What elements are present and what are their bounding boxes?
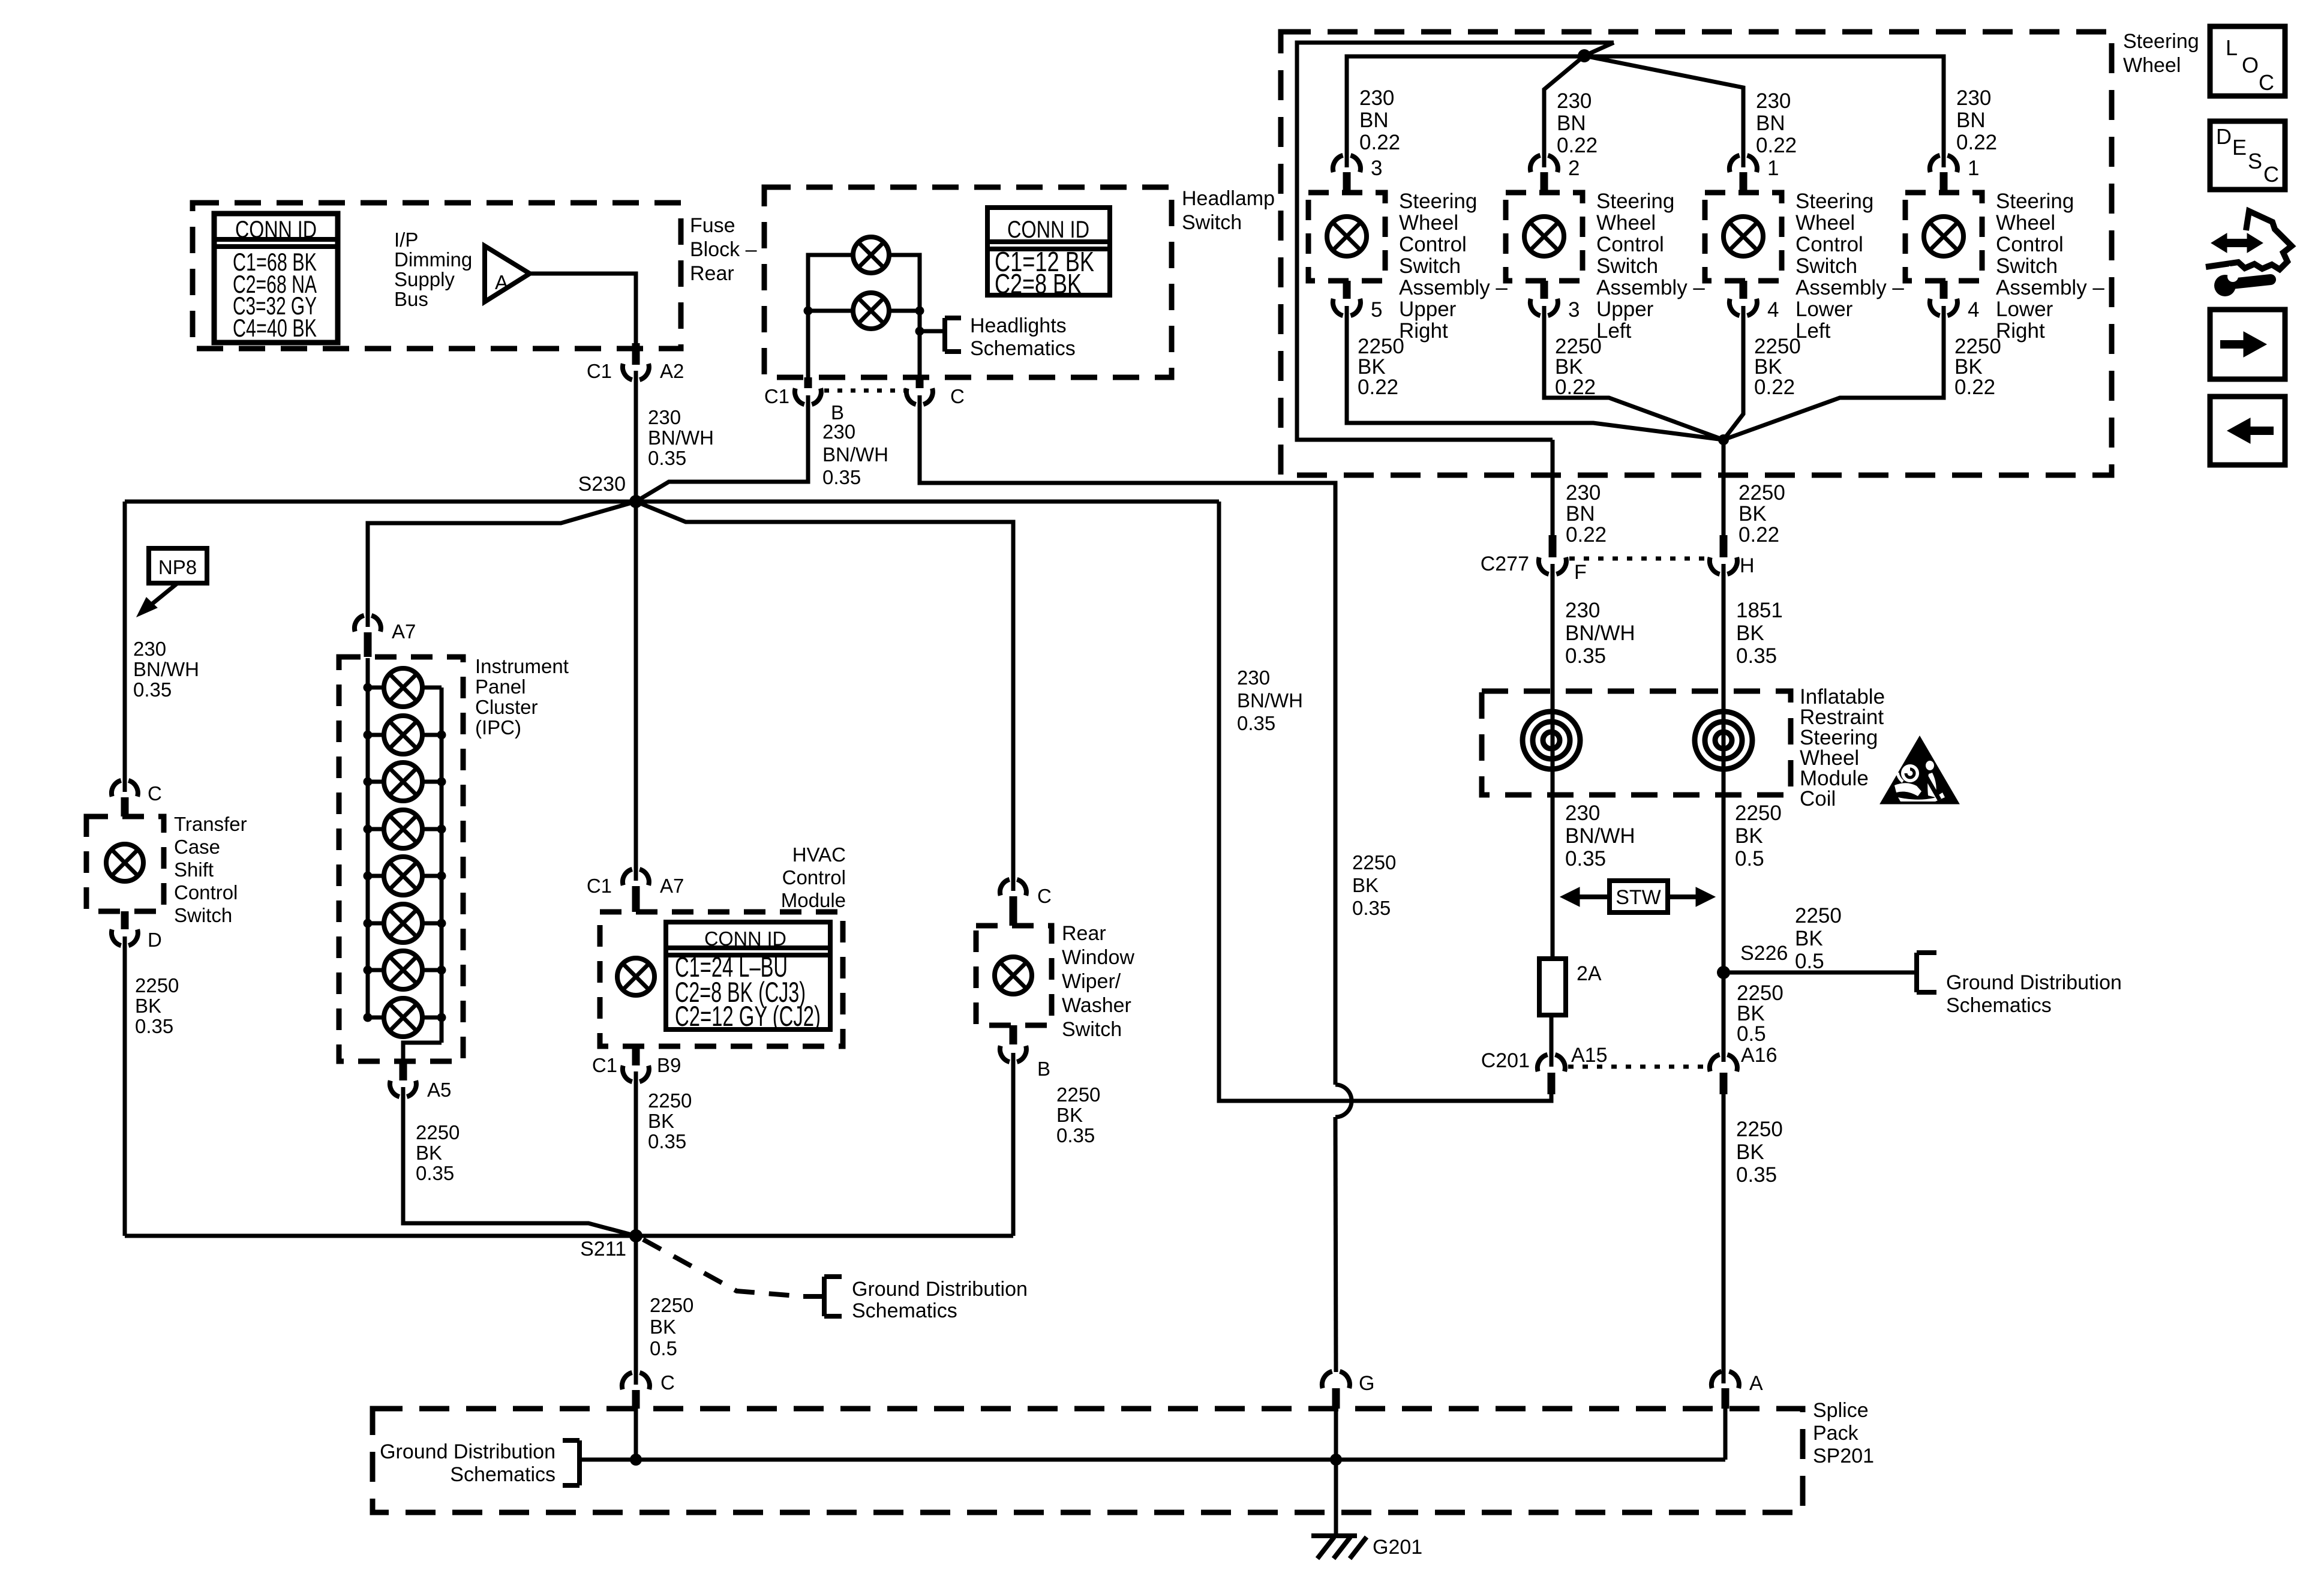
svg-text:Right: Right xyxy=(1399,319,1448,343)
svg-text:Lower: Lower xyxy=(1795,298,1853,321)
svg-text:C1: C1 xyxy=(587,360,612,382)
svg-text:0.5: 0.5 xyxy=(1795,950,1824,973)
svg-text:Switch: Switch xyxy=(174,904,232,926)
svg-text:0.22: 0.22 xyxy=(1739,523,1779,547)
svg-text:Transfer: Transfer xyxy=(174,813,247,835)
svg-text:230: 230 xyxy=(1956,86,1991,110)
svg-text:B: B xyxy=(1037,1058,1050,1080)
svg-text:Block –: Block – xyxy=(690,238,757,261)
svg-text:BN/WH: BN/WH xyxy=(1565,622,1635,645)
svg-text:BK: BK xyxy=(1736,622,1764,645)
svg-text:Cluster: Cluster xyxy=(475,696,538,718)
svg-text:A7: A7 xyxy=(660,875,684,897)
svg-text:5: 5 xyxy=(1371,298,1382,322)
svg-text:Assembly –: Assembly – xyxy=(1399,276,1508,299)
svg-text:230: 230 xyxy=(1565,599,1600,622)
svg-text:Dimming: Dimming xyxy=(394,248,472,271)
svg-text:A2: A2 xyxy=(660,360,684,382)
svg-text:BN/WH: BN/WH xyxy=(133,658,199,680)
svg-text:Upper: Upper xyxy=(1596,298,1654,321)
svg-text:CONN ID: CONN ID xyxy=(235,217,317,243)
svg-text:0.22: 0.22 xyxy=(1566,523,1607,547)
svg-text:Headlights: Headlights xyxy=(970,314,1067,337)
svg-text:L: L xyxy=(2226,35,2238,60)
svg-text:A5: A5 xyxy=(427,1079,451,1101)
svg-text:Left: Left xyxy=(1596,319,1632,343)
svg-text:Wiper/: Wiper/ xyxy=(1062,970,1121,993)
svg-text:BN/WH: BN/WH xyxy=(1237,689,1303,712)
svg-text:BK: BK xyxy=(135,995,161,1017)
svg-text:Coil: Coil xyxy=(1800,787,1836,810)
svg-text:0.22: 0.22 xyxy=(1555,376,1596,399)
svg-text:C1: C1 xyxy=(587,875,612,897)
svg-text:C: C xyxy=(2259,70,2274,95)
svg-text:Wheel: Wheel xyxy=(1399,211,1458,235)
svg-text:Control: Control xyxy=(174,881,238,903)
svg-text:2250: 2250 xyxy=(135,974,179,996)
svg-text:BN/WH: BN/WH xyxy=(648,427,714,449)
svg-text:0.35: 0.35 xyxy=(1237,712,1275,734)
svg-text:2250: 2250 xyxy=(1352,851,1396,873)
svg-text:C4=40 BK: C4=40 BK xyxy=(233,314,317,342)
svg-text:C: C xyxy=(950,385,965,407)
svg-text:Steering: Steering xyxy=(1996,190,2074,213)
svg-text:2250: 2250 xyxy=(1735,801,1782,825)
svg-text:BN: BN xyxy=(1956,109,1986,132)
svg-text:Switch: Switch xyxy=(1399,254,1461,278)
svg-text:I/P: I/P xyxy=(394,229,418,251)
svg-text:0.22: 0.22 xyxy=(1557,134,1598,157)
svg-text:CONN ID: CONN ID xyxy=(1007,217,1089,243)
svg-text:1: 1 xyxy=(1968,157,1979,180)
svg-text:Switch: Switch xyxy=(1596,254,1658,278)
svg-text:CONN ID: CONN ID xyxy=(704,927,786,950)
svg-text:C2=12 GY (CJ2): C2=12 GY (CJ2) xyxy=(675,1000,821,1032)
svg-text:Steering: Steering xyxy=(1795,190,1873,213)
svg-text:C: C xyxy=(2263,162,2279,187)
svg-text:Control: Control xyxy=(1399,233,1467,256)
svg-text:Headlamp: Headlamp xyxy=(1182,187,1275,210)
svg-text:0.35: 0.35 xyxy=(416,1162,454,1184)
svg-text:230: 230 xyxy=(1566,481,1601,505)
svg-text:BK: BK xyxy=(648,1110,674,1132)
svg-text:F: F xyxy=(1574,561,1587,584)
svg-text:230: 230 xyxy=(648,406,681,428)
svg-text:Control: Control xyxy=(1596,233,1664,256)
svg-text:BK: BK xyxy=(1795,927,1823,950)
svg-text:Rear: Rear xyxy=(1062,922,1106,945)
svg-text:Ground Distribution: Ground Distribution xyxy=(1946,971,2122,994)
svg-text:C: C xyxy=(660,1371,675,1394)
svg-text:BK: BK xyxy=(650,1316,676,1338)
svg-text:Control: Control xyxy=(1795,233,1863,256)
svg-text:C1: C1 xyxy=(592,1054,617,1076)
svg-text:2: 2 xyxy=(1568,157,1580,180)
svg-text:4: 4 xyxy=(1767,298,1779,322)
svg-text:0.35: 0.35 xyxy=(135,1015,173,1037)
svg-text:0.35: 0.35 xyxy=(1565,644,1606,668)
svg-text:C: C xyxy=(148,782,162,804)
svg-text:STW: STW xyxy=(1616,886,1661,909)
svg-text:2250: 2250 xyxy=(650,1294,693,1316)
svg-text:A: A xyxy=(495,271,508,293)
svg-text:0.35: 0.35 xyxy=(1056,1124,1095,1146)
svg-text:2250: 2250 xyxy=(1739,481,1785,505)
svg-text:BK: BK xyxy=(1056,1104,1083,1126)
svg-text:BN: BN xyxy=(1557,112,1586,135)
svg-text:1851: 1851 xyxy=(1736,599,1783,622)
svg-text:BN: BN xyxy=(1359,109,1389,132)
svg-text:HVAC: HVAC xyxy=(792,843,846,866)
svg-text:D: D xyxy=(2216,124,2232,149)
svg-text:C1: C1 xyxy=(764,385,789,407)
svg-text:2250: 2250 xyxy=(648,1089,692,1112)
svg-text:BK: BK xyxy=(416,1142,442,1164)
svg-text:Shift: Shift xyxy=(174,858,214,881)
svg-text:Control: Control xyxy=(782,866,846,888)
svg-text:Supply: Supply xyxy=(394,268,455,290)
svg-text:0.22: 0.22 xyxy=(1359,131,1400,154)
svg-text:S230: S230 xyxy=(578,473,626,496)
svg-text:0.35: 0.35 xyxy=(1565,847,1606,870)
svg-text:S: S xyxy=(2248,149,2262,173)
svg-text:E: E xyxy=(2232,135,2247,160)
svg-text:Steering: Steering xyxy=(1596,190,1674,213)
svg-text:Case: Case xyxy=(174,836,220,858)
svg-text:0.35: 0.35 xyxy=(648,1130,686,1152)
svg-text:G: G xyxy=(1359,1372,1374,1395)
svg-text:Wheel: Wheel xyxy=(1596,211,1656,235)
svg-text:Control: Control xyxy=(1996,233,2064,256)
svg-text:0.5: 0.5 xyxy=(650,1337,677,1359)
svg-text:Washer: Washer xyxy=(1062,994,1131,1017)
svg-text:230: 230 xyxy=(1565,801,1600,825)
svg-text:O: O xyxy=(2242,53,2259,77)
svg-text:2250: 2250 xyxy=(1795,904,1842,927)
svg-text:0.22: 0.22 xyxy=(1754,376,1795,399)
svg-text:3: 3 xyxy=(1371,157,1382,180)
svg-text:G201: G201 xyxy=(1373,1536,1422,1559)
svg-text:A7: A7 xyxy=(392,620,416,643)
svg-text:0.22: 0.22 xyxy=(1956,131,1997,154)
svg-text:Upper: Upper xyxy=(1399,298,1457,321)
svg-text:Instrument: Instrument xyxy=(475,655,569,677)
svg-text:0.5: 0.5 xyxy=(1737,1022,1766,1046)
svg-text:2A: 2A xyxy=(1577,962,1602,985)
svg-text:Schematics: Schematics xyxy=(852,1299,957,1322)
svg-text:Window: Window xyxy=(1062,946,1134,969)
svg-text:230: 230 xyxy=(133,638,166,660)
svg-text:0.35: 0.35 xyxy=(1736,1163,1777,1187)
svg-text:C: C xyxy=(1037,885,1052,907)
svg-text:Rear: Rear xyxy=(690,262,734,285)
svg-text:Wheel: Wheel xyxy=(1795,211,1855,235)
svg-text:Schematics: Schematics xyxy=(970,337,1076,360)
svg-text:2250: 2250 xyxy=(1736,1118,1783,1141)
svg-text:230: 230 xyxy=(822,421,855,443)
svg-text:Switch: Switch xyxy=(1795,254,1857,278)
svg-text:S226: S226 xyxy=(1740,942,1788,965)
svg-text:Ground Distribution: Ground Distribution xyxy=(380,1440,556,1463)
svg-text:Wheel: Wheel xyxy=(1996,211,2055,235)
svg-text:Assembly –: Assembly – xyxy=(1596,276,1705,299)
svg-text:B9: B9 xyxy=(657,1054,681,1076)
svg-text:BN/WH: BN/WH xyxy=(822,443,888,466)
svg-text:0.22: 0.22 xyxy=(1756,134,1797,157)
svg-text:230: 230 xyxy=(1359,86,1394,110)
svg-text:0.22: 0.22 xyxy=(1358,376,1398,399)
svg-text:A: A xyxy=(1749,1372,1763,1395)
svg-text:2250: 2250 xyxy=(416,1121,460,1143)
svg-text:C201: C201 xyxy=(1481,1049,1530,1072)
svg-text:230: 230 xyxy=(1237,667,1270,689)
svg-text:A16: A16 xyxy=(1741,1044,1777,1067)
svg-text:Assembly –: Assembly – xyxy=(1795,276,1904,299)
svg-text:1: 1 xyxy=(1767,157,1779,180)
svg-text:BK: BK xyxy=(1352,874,1379,896)
svg-text:0.5: 0.5 xyxy=(1735,847,1764,870)
svg-text:BN/WH: BN/WH xyxy=(1565,824,1635,848)
svg-text:C277: C277 xyxy=(1481,553,1529,575)
svg-text:3: 3 xyxy=(1568,298,1580,322)
svg-text:0.35: 0.35 xyxy=(133,679,172,701)
svg-text:Steering: Steering xyxy=(1399,190,1477,213)
svg-text:BN: BN xyxy=(1566,502,1595,526)
svg-text:2250: 2250 xyxy=(1056,1083,1100,1106)
svg-text:Fuse: Fuse xyxy=(690,214,735,237)
svg-text:0.22: 0.22 xyxy=(1954,376,1995,399)
svg-text:Switch: Switch xyxy=(1996,254,2058,278)
svg-text:230: 230 xyxy=(1756,89,1791,113)
svg-text:0.35: 0.35 xyxy=(822,466,861,488)
svg-text:Pack: Pack xyxy=(1813,1422,1859,1445)
svg-text:BN: BN xyxy=(1756,112,1785,135)
svg-text:D: D xyxy=(148,929,162,951)
svg-text:Assembly –: Assembly – xyxy=(1996,276,2104,299)
svg-text:BK: BK xyxy=(1735,824,1763,848)
svg-text:0.35: 0.35 xyxy=(1736,644,1777,668)
svg-text:4: 4 xyxy=(1968,298,1979,322)
svg-text:Switch: Switch xyxy=(1182,211,1242,234)
svg-text:NP8: NP8 xyxy=(158,556,197,578)
svg-text:Switch: Switch xyxy=(1062,1018,1122,1041)
svg-text:Steering: Steering xyxy=(2123,30,2199,53)
svg-text:Wheel: Wheel xyxy=(2123,54,2181,77)
svg-text:A15: A15 xyxy=(1571,1044,1608,1067)
svg-text:0.35: 0.35 xyxy=(1352,897,1391,919)
svg-text:(IPC): (IPC) xyxy=(475,716,521,739)
svg-text:BK: BK xyxy=(1739,502,1767,526)
svg-text:BK: BK xyxy=(1736,1140,1764,1164)
svg-text:Left: Left xyxy=(1795,319,1831,343)
svg-text:SP201: SP201 xyxy=(1813,1445,1874,1467)
svg-text:Right: Right xyxy=(1996,319,2045,343)
svg-text:Schematics: Schematics xyxy=(1946,994,2052,1017)
svg-text:H: H xyxy=(1740,554,1755,577)
svg-text:Lower: Lower xyxy=(1996,298,2053,321)
svg-text:S211: S211 xyxy=(580,1238,626,1260)
svg-text:Panel: Panel xyxy=(475,676,526,698)
svg-text:0.35: 0.35 xyxy=(648,447,686,469)
svg-text:Bus: Bus xyxy=(394,288,428,310)
svg-text:C2=8 BK: C2=8 BK xyxy=(995,268,1082,299)
svg-text:230: 230 xyxy=(1557,89,1592,113)
svg-text:Ground Distribution: Ground Distribution xyxy=(852,1278,1028,1301)
svg-text:Schematics: Schematics xyxy=(450,1463,556,1486)
svg-text:Splice: Splice xyxy=(1813,1399,1869,1422)
svg-text:Module: Module xyxy=(781,889,846,911)
